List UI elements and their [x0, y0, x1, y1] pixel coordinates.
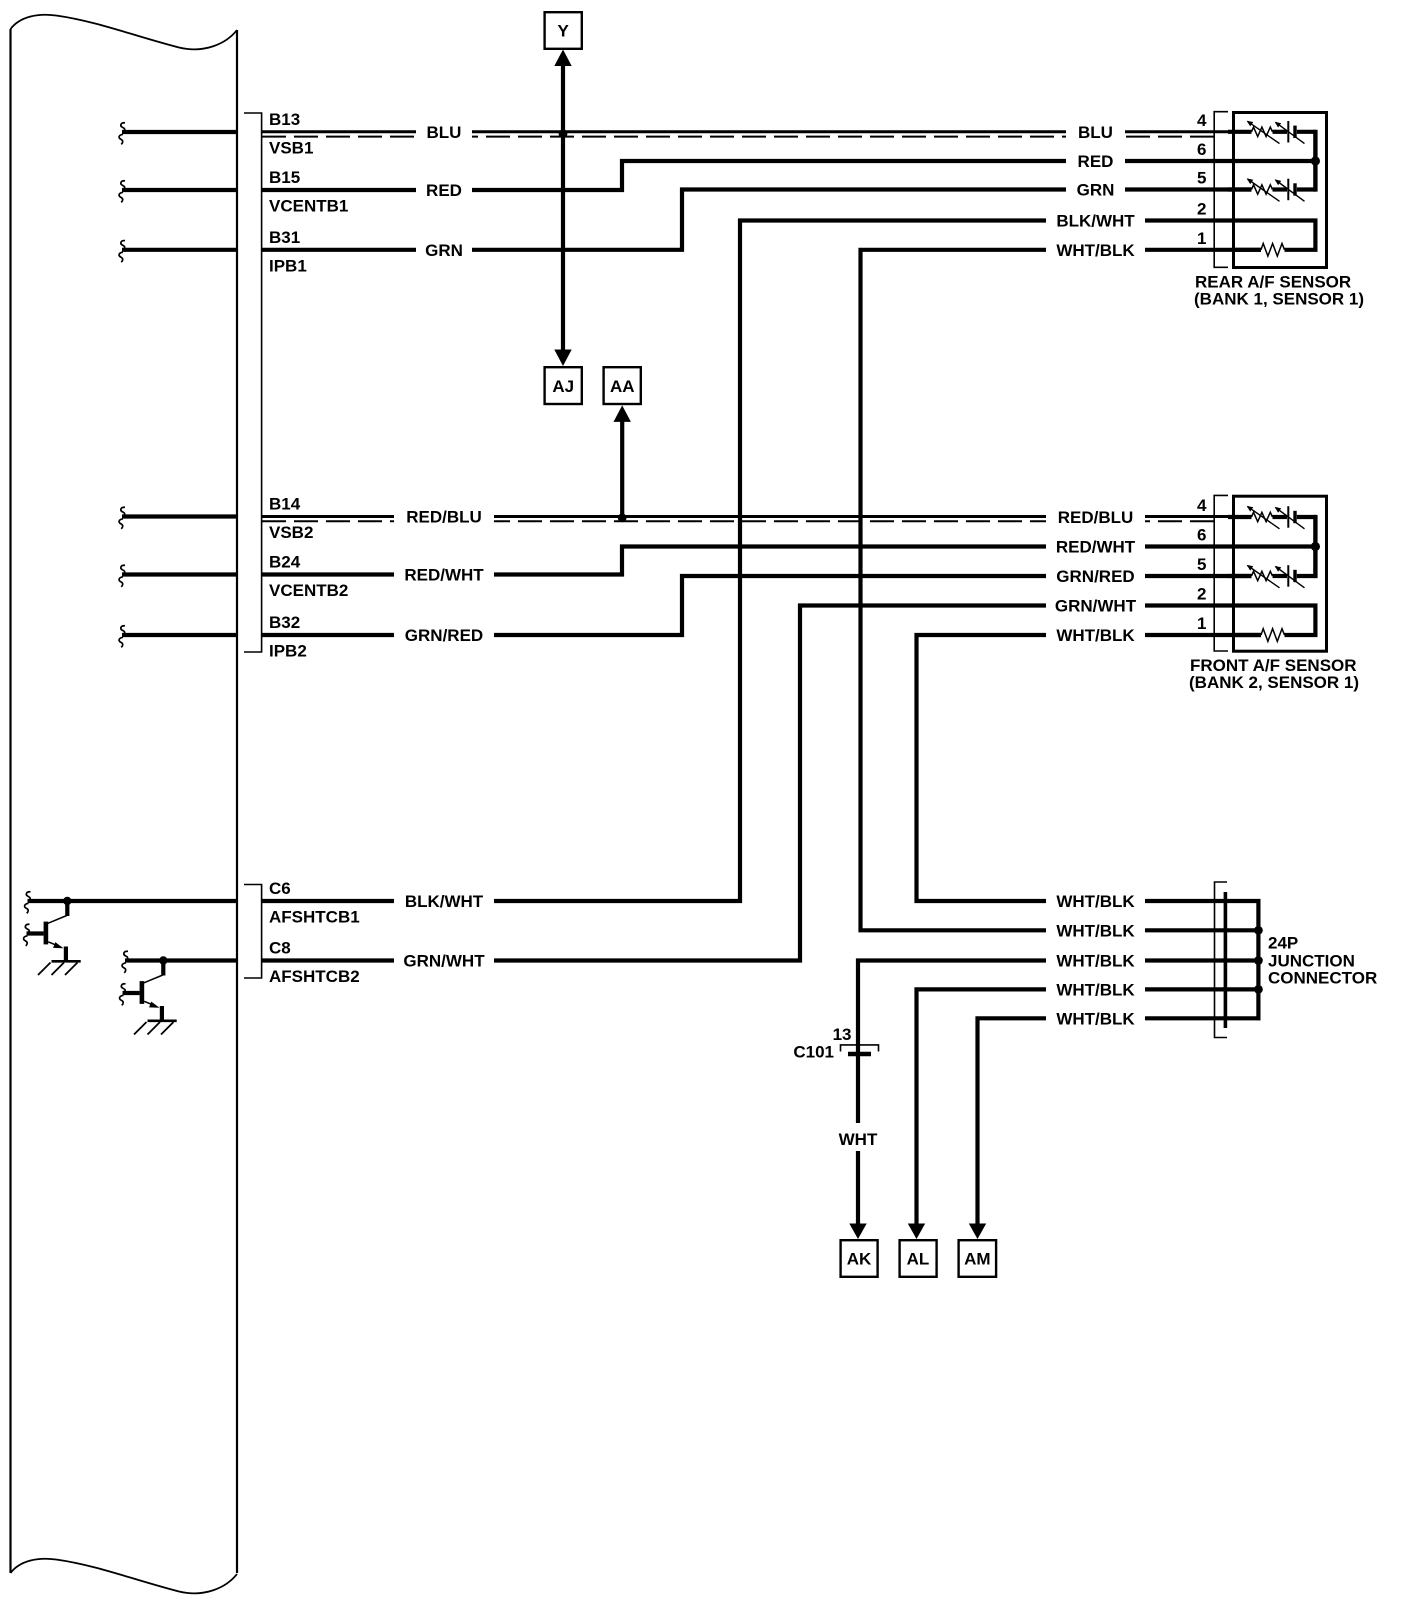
svg-text:AJ: AJ [552, 377, 574, 396]
svg-text:WHT/BLK: WHT/BLK [1056, 1009, 1135, 1028]
wire colour label RED/BLU (left) [394, 505, 494, 529]
svg-text:6: 6 [1197, 526, 1206, 545]
svg-text:GRN/WHT: GRN/WHT [403, 952, 485, 971]
transistor Q1 base lead [27, 931, 44, 935]
arrowhead into AA [614, 405, 631, 422]
svg-text:AFSHTCB2: AFSHTCB2 [269, 967, 360, 986]
terminal box AM [959, 1240, 997, 1277]
node AA vertical line [620, 419, 624, 518]
junction dot row 2 [1254, 926, 1263, 935]
variable resistor element (front, pin 4 row) [1252, 512, 1273, 521]
svg-text:VCENTB1: VCENTB1 [269, 197, 348, 216]
svg-text:RED/WHT: RED/WHT [404, 566, 484, 585]
wire-end squiggle B24 [119, 565, 125, 587]
ECM connector bracket C6-C8 [244, 885, 262, 979]
wire-end squiggle Q1 base [24, 924, 30, 946]
sensor cell element (rear, pin 4 row) [1287, 121, 1289, 143]
pin C6 stub wire [28, 899, 238, 903]
variable resistor element (rear, pin 4 row) [1252, 127, 1273, 136]
front A/F sensor 6P connector bracket [1214, 495, 1228, 651]
svg-text:B31: B31 [269, 228, 300, 247]
svg-text:C6: C6 [269, 879, 291, 898]
terminal box AK [841, 1240, 878, 1277]
svg-text:RED/BLU: RED/BLU [1058, 508, 1134, 527]
svg-text:WHT/BLK: WHT/BLK [1056, 921, 1135, 940]
rear sensor heater resistor (pin 1 row) [1234, 248, 1262, 252]
ECM left edge [9, 29, 11, 1573]
svg-text:C101: C101 [793, 1043, 834, 1062]
junction dot front pin 6 [1311, 542, 1320, 551]
svg-text:AK: AK [847, 1250, 872, 1269]
terminal box AL [900, 1240, 937, 1277]
svg-text:CONNECTOR: CONNECTOR [1268, 969, 1377, 988]
svg-text:B32: B32 [269, 613, 300, 632]
wire colour label GRN/WHT (right) [1046, 594, 1145, 618]
svg-text:WHT/BLK: WHT/BLK [1056, 892, 1135, 911]
svg-text:6: 6 [1197, 140, 1206, 159]
wire-end squiggle B32 [119, 626, 125, 648]
24P junction connector bracket [1215, 882, 1228, 1038]
wire colour label GRN (right) [1066, 178, 1125, 202]
transistor Q1 base bar [44, 922, 49, 945]
svg-text:WHT: WHT [839, 1130, 878, 1149]
wire-end squiggle B14 [119, 507, 125, 529]
svg-text:BLU: BLU [427, 123, 462, 142]
svg-text:VSB2: VSB2 [269, 523, 313, 542]
svg-text:RED/BLU: RED/BLU [406, 508, 482, 527]
wire GRN (IPB1) with step up to pin 5 [262, 190, 1252, 250]
terminal box AJ [545, 367, 582, 404]
svg-text:RED: RED [426, 181, 462, 200]
svg-text:WHT/BLK: WHT/BLK [1056, 952, 1135, 971]
junction dot row 4 [1254, 985, 1263, 994]
wire RED/BLU shield dashed line [262, 520, 1214, 522]
svg-text:VCENTB2: VCENTB2 [269, 581, 348, 600]
svg-text:GRN/RED: GRN/RED [1056, 567, 1134, 586]
arrowhead into AK [849, 1224, 866, 1240]
junction dot on BLU at Y line [559, 129, 568, 138]
wire RED/WHT (VCENTB2) with step up to pin 6 [262, 547, 1314, 575]
svg-text:B13: B13 [269, 110, 300, 129]
wire colour label GRN (left) [416, 238, 472, 262]
transistor Q2 base bar [140, 981, 145, 1004]
svg-text:GRN: GRN [425, 241, 463, 260]
transistor Q1 (AFSHTCB1 driver) collector junction dot on C6 wire [63, 897, 71, 905]
variable arrow through cell (front pin 5) [1276, 567, 1305, 588]
24P junction connector bus [1256, 899, 1260, 1020]
ground G2 [148, 1019, 177, 1022]
wire RED (VCENTB1) with step up to pin 6 [262, 161, 1314, 190]
ground G1 [52, 960, 81, 963]
wire colour label WHT/BLK (junction row1) [1046, 889, 1145, 913]
pin B31 stub wire [122, 248, 237, 252]
svg-text:(BANK 1, SENSOR 1): (BANK 1, SENSOR 1) [1194, 290, 1364, 309]
wire WHT/BLK junction row 5 to terminal AM [978, 1018, 1261, 1231]
svg-text:WHT/BLK: WHT/BLK [1056, 626, 1135, 645]
variable arrow through resistor (front pin 5) [1248, 566, 1280, 588]
ECM connector bracket B13-IPB2 [244, 113, 262, 652]
wire colour label BLU (right) [1066, 120, 1125, 144]
svg-text:B15: B15 [269, 168, 300, 187]
svg-text:B14: B14 [269, 495, 301, 514]
front sensor internal bus pin4-pin6-pin5 [1313, 515, 1317, 578]
variable resistor element (front, pin 5 row) [1252, 571, 1273, 580]
wire-end squiggle B15 [119, 181, 125, 203]
wire colour label WHT/BLK (junction row3) [1046, 949, 1145, 973]
front sensor pin 4 lead [1228, 515, 1252, 519]
pin B32 stub wire [122, 633, 237, 637]
wire WHT/BLK rear sensor pin 1 down to junction row 2 [861, 250, 1262, 931]
terminal box Y [545, 12, 582, 49]
arrowhead into Y [554, 50, 571, 67]
arrowhead into AM [969, 1224, 986, 1240]
svg-text:B24: B24 [269, 553, 301, 572]
pin B15 stub wire [122, 188, 237, 192]
svg-text:13: 13 [833, 1025, 852, 1044]
wire colour label RED (left) [416, 178, 472, 202]
wire colour label WHT/BLK (front pin1) [1046, 623, 1145, 647]
svg-text:BLK/WHT: BLK/WHT [1056, 212, 1135, 231]
svg-text:4: 4 [1197, 496, 1207, 515]
junction dot on RED/BLU at AA line [618, 513, 627, 522]
wire-end squiggle C8 [122, 951, 128, 973]
transistor Q2 collector lead [161, 959, 165, 976]
wire WHT/BLK junction row 4 to terminal AL [917, 989, 1261, 1231]
wire colour label WHT/BLK (junction row5) [1046, 1006, 1145, 1030]
wire-end squiggle B31 [119, 241, 125, 263]
junction dot row 3 [1254, 956, 1263, 965]
transistor Q1 collector lead [65, 899, 69, 916]
variable arrow through resistor (front pin 4) [1248, 507, 1280, 529]
svg-text:C8: C8 [269, 939, 291, 958]
pin B13 stub wire [122, 130, 237, 134]
svg-text:2: 2 [1197, 585, 1206, 604]
wire colour label BLK/WHT (left) [394, 889, 494, 913]
transistor Q2 base lead [123, 991, 140, 995]
connector C101 (pin 13) [841, 1045, 879, 1052]
wire colour label WHT (C101 to AK) [835, 1123, 881, 1151]
svg-text:1: 1 [1197, 229, 1206, 248]
variable arrow through resistor (rear pin 5) [1248, 179, 1280, 201]
front sensor pin 5 lead [1228, 574, 1252, 578]
wire colour label GRN/RED (right) [1046, 564, 1145, 588]
ECM torn bottom edge [11, 1559, 238, 1594]
wire WHT/BLK front sensor pin 1 down to junction row 1 [917, 635, 1262, 901]
ECM torn top edge [11, 15, 238, 50]
ECM right edge [236, 30, 238, 1573]
variable arrow through cell (rear pin 5) [1276, 180, 1305, 201]
svg-text:RED/WHT: RED/WHT [1056, 538, 1136, 557]
svg-text:Y: Y [558, 22, 570, 41]
transistor Q2 (AFSHTCB2 driver) collector junction dot on C8 wire [159, 956, 167, 964]
rear sensor pin 4 lead [1228, 130, 1252, 134]
sensor cell element (front, pin 4 row) [1287, 506, 1289, 528]
svg-text:5: 5 [1197, 169, 1206, 188]
svg-text:2: 2 [1197, 200, 1206, 219]
pin B24 stub wire [122, 572, 237, 576]
svg-text:24P: 24P [1268, 934, 1298, 953]
svg-text:AL: AL [907, 1250, 930, 1269]
svg-text:AFSHTCB1: AFSHTCB1 [269, 908, 360, 927]
rear sensor internal bus pin4-pin6-pin5 [1313, 130, 1317, 192]
svg-text:WHT/BLK: WHT/BLK [1056, 980, 1135, 999]
transistor Q2 emitter lead with arrow [144, 1001, 153, 1005]
pin B14 stub wire [122, 514, 237, 518]
front A/F sensor body box [1234, 496, 1327, 651]
wire colour label WHT/BLK (rear pin1) [1046, 238, 1145, 262]
svg-text:(BANK 2, SENSOR 1): (BANK 2, SENSOR 1) [1189, 673, 1359, 692]
wire WHT/BLK junction row 3 to C101 and terminal AK [858, 961, 1261, 1232]
svg-text:1: 1 [1197, 614, 1206, 633]
rear A/F sensor body box [1234, 113, 1327, 268]
sensor cell element (rear, pin 5 row) [1287, 179, 1289, 201]
svg-text:AM: AM [964, 1250, 990, 1269]
variable arrow through resistor (rear pin 4) [1248, 121, 1280, 143]
rear sensor pin 5 lead [1228, 187, 1252, 191]
rear A/F sensor 6P connector bracket [1214, 112, 1228, 268]
variable resistor element (rear, pin 5 row) [1252, 185, 1273, 194]
svg-text:VSB1: VSB1 [269, 139, 313, 158]
variable arrow through cell (rear pin 4) [1276, 122, 1305, 143]
wire BLU shield dashed line [262, 136, 1214, 138]
arrowhead into AJ [554, 350, 571, 367]
wire BLK/WHT (AFSHTCB1) up to rear sensor pin 2 and heater drop [262, 221, 1316, 902]
svg-text:GRN/RED: GRN/RED [405, 626, 483, 645]
terminal box AA [604, 367, 641, 404]
arrowhead into AL [908, 1224, 925, 1240]
wire colour label RED/WHT (right) [1046, 535, 1145, 559]
pin C8 stub wire [125, 958, 237, 962]
svg-text:BLU: BLU [1078, 123, 1113, 142]
wire colour label WHT/BLK (junction row4) [1046, 977, 1145, 1001]
sensor cell element (front, pin 5 row) [1287, 565, 1289, 587]
wire GRN/RED (IPB2) with step up to pin 5 [262, 576, 1252, 635]
svg-text:IPB2: IPB2 [269, 642, 307, 661]
wire-end squiggle B13 [119, 123, 125, 145]
wire-end squiggle Q2 base [120, 984, 126, 1006]
junction dot rear pin 6 [1311, 156, 1320, 165]
node Y vertical line (to terminal Y and AJ) [561, 63, 565, 353]
24P junction connector bar [1224, 892, 1228, 1028]
wire colour label WHT/BLK (junction row2) [1046, 918, 1145, 942]
ECM/PCM block (torn outline) [11, 15, 238, 1594]
wire BLU (VSB1 shielded signal) solid [262, 130, 1252, 133]
svg-text:IPB1: IPB1 [269, 256, 307, 275]
svg-text:5: 5 [1197, 555, 1206, 574]
wire colour label BLK/WHT (right) [1046, 209, 1145, 233]
svg-text:BLK/WHT: BLK/WHT [405, 892, 484, 911]
svg-text:WHT/BLK: WHT/BLK [1056, 241, 1135, 260]
front sensor heater resistor (pin 1 row) [1234, 633, 1262, 637]
wire-end squiggle C6 [25, 892, 31, 914]
transistor Q1 emitter lead with arrow [48, 942, 57, 946]
svg-text:GRN: GRN [1077, 181, 1115, 200]
wire colour label RED (right) [1066, 149, 1125, 173]
wire colour label RED/BLU (right) [1046, 505, 1145, 529]
wire RED/BLU (VSB2 shielded signal) solid [262, 515, 1252, 518]
svg-text:RED: RED [1078, 152, 1114, 171]
wire colour label GRN/WHT (left) [394, 949, 494, 973]
variable arrow through cell (front pin 4) [1276, 508, 1305, 529]
wire colour label BLU (left) [416, 120, 472, 144]
svg-text:GRN/WHT: GRN/WHT [1055, 597, 1137, 616]
wire GRN/WHT (AFSHTCB2) up to front sensor pin 2 and heater drop [262, 606, 1316, 961]
svg-text:4: 4 [1197, 111, 1207, 130]
wire colour label GRN/RED (left) [394, 623, 494, 647]
wire colour label RED/WHT (left) [394, 563, 494, 587]
svg-text:AA: AA [610, 377, 635, 396]
